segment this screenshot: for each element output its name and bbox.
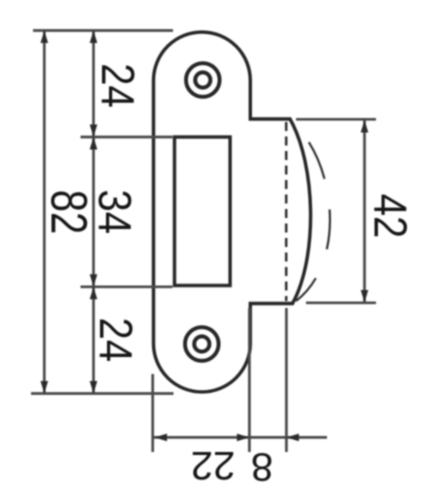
arrow inner bottom (down) (90, 381, 98, 394)
top screw hole inner circle (195, 72, 210, 87)
dimension line 24/34/24 (inner vertical) (92, 31, 95, 394)
arrowheads (41, 31, 369, 442)
arrow 8 right (points left, outside) (286, 434, 299, 442)
dimension texts (40, 63, 415, 488)
bottom screw hole inner circle (194, 336, 209, 351)
arrow 82 bottom (down) (41, 381, 49, 394)
lip bend line (dashed) (285, 122, 288, 301)
svg-text:8: 8 (251, 445, 273, 489)
svg-text:82: 82 (40, 190, 98, 234)
arrow 42 top (up) (361, 120, 369, 133)
extension line for 42 top (296, 118, 376, 121)
svg-text:22: 22 (191, 443, 236, 487)
top screw hole outer circle (186, 63, 220, 97)
extension line 24/34 boundary (y=137) (81, 136, 173, 139)
dimension line 42 (right vertical) (363, 120, 366, 303)
extension line 34/24 boundary (y=287) (81, 285, 173, 288)
strike plate outline (stadium body with bent lip) (154, 32, 311, 392)
extension line for 42 bottom (306, 301, 376, 304)
dimension line 82 (outer vertical) (43, 31, 46, 394)
extension line top (y=30.5) (33, 29, 173, 32)
dimension tail line right of 8 (286, 436, 327, 439)
bottom screw hole outer circle (185, 327, 219, 361)
bottom extension line right (lip bend) (285, 308, 288, 452)
bottom extension line left (plate left edge) (151, 374, 154, 452)
svg-text:24: 24 (91, 63, 142, 107)
latch cutout rectangle (175, 137, 231, 286)
arrow 22 left (points left) (155, 434, 168, 442)
arrow pair at 287 boundary (down then up) (90, 274, 98, 287)
arrow inner top (up) (90, 31, 98, 44)
bottom extension line middle (plate right edge) (248, 308, 251, 452)
svg-text:24: 24 (89, 318, 140, 362)
svg-text:42: 42 (364, 194, 415, 238)
lip swing arc (dashed) (293, 123, 330, 301)
dimension line 22 (horizontal) (154, 436, 250, 439)
arrow 82 top (up) (41, 31, 49, 44)
arrow 42 bottom (down) (361, 290, 369, 303)
dimension line 8 (horizontal) (249, 436, 286, 439)
extension line bottom (y=393.5) (31, 392, 174, 395)
arrow 22 right (points right) (237, 434, 250, 442)
arrow pair at 137 boundary (down then up) (90, 125, 98, 138)
